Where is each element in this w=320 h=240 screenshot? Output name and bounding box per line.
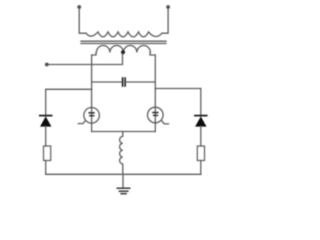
wire right resistor to rail xyxy=(200,161,202,175)
wire to right diode branch xyxy=(155,88,201,90)
wire capacitor rung left xyxy=(92,81,122,83)
resistor R1 xyxy=(44,146,51,161)
wire top-left lead xyxy=(79,8,86,33)
diode D1 xyxy=(40,116,52,127)
wire secondary left end jog xyxy=(92,53,96,55)
node center tap xyxy=(121,50,125,54)
wire secondary right end jog xyxy=(150,53,155,55)
wire left resistor to rail xyxy=(45,161,47,175)
ground xyxy=(117,188,130,194)
capacitor C1 xyxy=(122,77,126,87)
wire left diode top lead xyxy=(45,89,47,116)
wire to left diode branch xyxy=(46,88,92,90)
wire capacitor rung right xyxy=(126,81,155,83)
wire left vertical branch xyxy=(91,55,93,132)
wire input terminal to center tap xyxy=(48,54,123,65)
wire right diode to resistor xyxy=(200,127,202,146)
diode D2 xyxy=(195,116,207,127)
resistor R2 xyxy=(197,146,204,161)
wire top-right lead xyxy=(162,8,168,33)
wire right vertical branch xyxy=(154,55,156,132)
inductor L1 xyxy=(120,132,123,175)
wire bottom rail xyxy=(46,173,201,175)
wire ground stub xyxy=(122,174,124,188)
transformer T1 core xyxy=(81,41,166,43)
terminal input left xyxy=(45,63,49,67)
wire left diode to resistor xyxy=(45,127,47,146)
transistor Q2 xyxy=(148,107,169,124)
transformer T1 secondary winding xyxy=(96,46,150,53)
transistor Q1 xyxy=(78,108,99,124)
terminal top-right xyxy=(166,5,170,9)
wire right diode top lead xyxy=(200,89,202,117)
terminal top-left xyxy=(77,5,81,9)
transformer T1 primary winding xyxy=(86,32,162,37)
wire emitter rail xyxy=(92,131,156,133)
